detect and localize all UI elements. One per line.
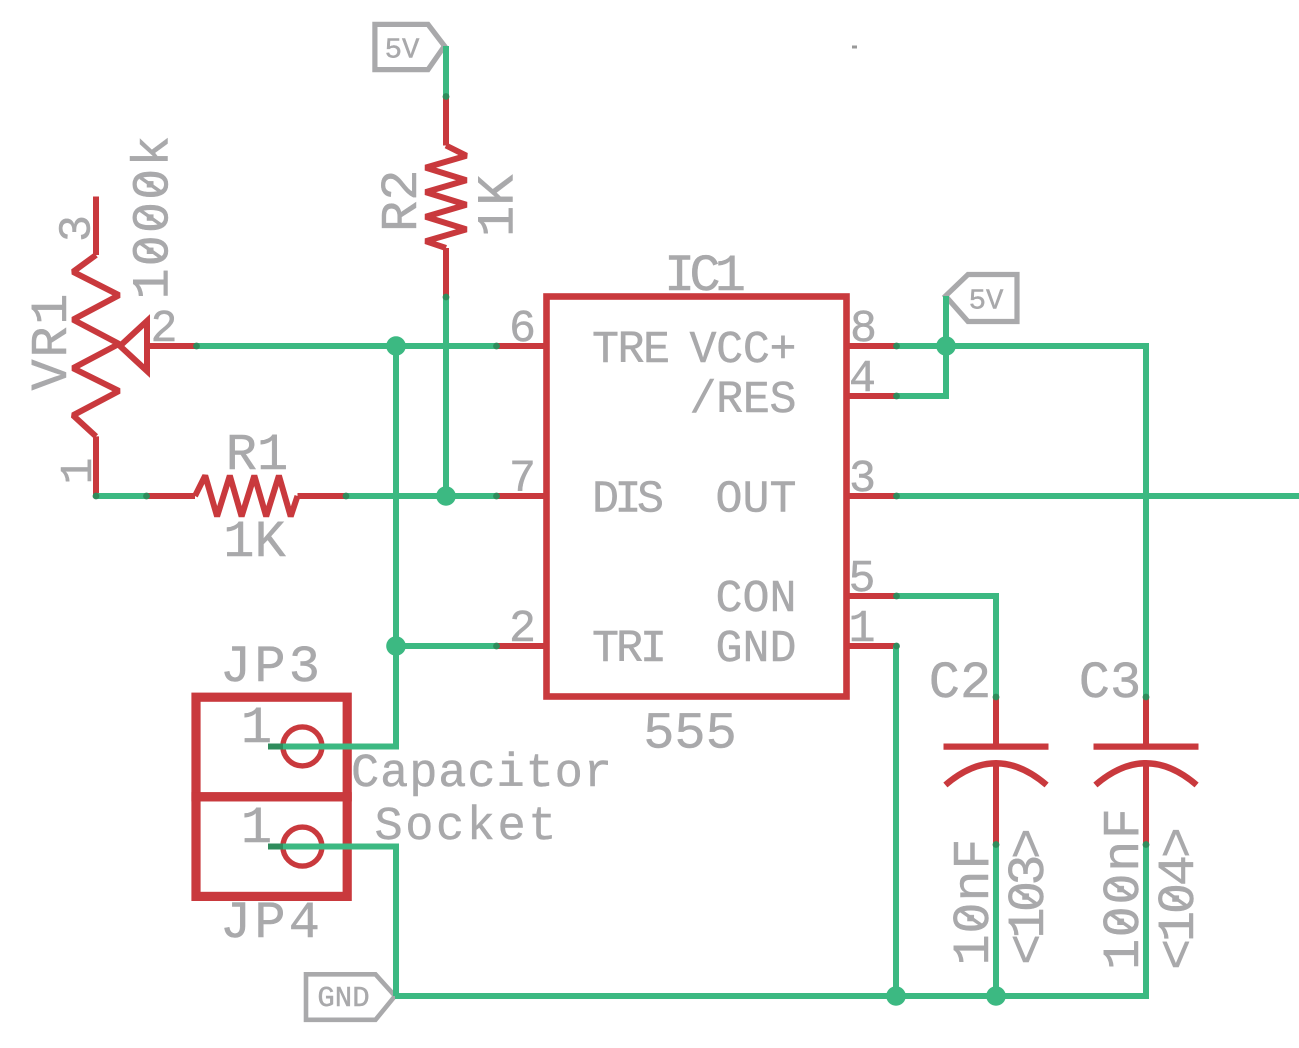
wire DIS net: R1 to pin 7: [346, 493, 497, 499]
connector JP4 pin circle: [283, 827, 322, 866]
ground flag GND: [306, 974, 395, 1020]
wire TRE net: vertical drop: [393, 346, 399, 646]
svg-text:DIS: DIS: [592, 475, 664, 526]
svg-text:7: 7: [509, 454, 536, 505]
svg-text:4: 4: [849, 354, 876, 405]
connector JP4 box: [196, 797, 347, 897]
svg-text:1: 1: [848, 604, 875, 655]
capacitor C2 bottom plate (arc): [945, 763, 1046, 785]
wire CON net: pin 5 to C2: [897, 596, 997, 697]
svg-text:C2: C2: [929, 654, 991, 713]
pin 5 stub: [847, 593, 897, 599]
svg-text:GND: GND: [317, 982, 369, 1015]
pin connection dot C3 top: [1143, 694, 1150, 701]
pin connection dot R1 left: [143, 493, 150, 500]
wire VCC net: pin 8 to C3 column: [897, 346, 1147, 697]
pin connection dot VR1 wiper: [193, 343, 200, 350]
pin 2 stub: [497, 643, 547, 649]
pin connection dot R2 bottom: [443, 294, 450, 301]
wire GND net: C2 bottom riser: [993, 845, 999, 997]
junction node VCC: [936, 336, 956, 356]
pin connection dot pin 6: [493, 343, 500, 350]
pin connection dot C2 bottom: [993, 841, 1000, 848]
svg-text:TRE: TRE: [592, 325, 670, 376]
svg-text:5: 5: [848, 554, 875, 605]
stray speck: [852, 46, 857, 49]
pin connection dot pin 7: [493, 493, 500, 500]
pin connection dot pin 8: [893, 343, 900, 350]
pin connection dot pin 4: [893, 393, 900, 400]
capacitor C3 bottom plate (arc): [1095, 763, 1196, 785]
svg-text:2: 2: [509, 604, 536, 655]
slashed-zero marks on value labels: [141, 243, 161, 257]
junction node DIS: [436, 486, 456, 506]
wire GND net: bottom rail: [395, 845, 1146, 997]
resistor R1 right lead: [298, 493, 347, 499]
svg-text:Capacitor: Capacitor: [351, 748, 612, 801]
svg-text:8: 8: [850, 304, 877, 355]
resistor R1 zigzag body: [195, 476, 298, 517]
svg-text:<103>: <103>: [1000, 828, 1059, 965]
pin 1 stub: [847, 643, 897, 649]
resistor R1 left lead: [147, 493, 196, 499]
svg-text:6: 6: [509, 304, 536, 355]
svg-text:<104>: <104>: [1150, 827, 1209, 970]
svg-text:5V: 5V: [969, 285, 1004, 318]
svg-text:555: 555: [643, 705, 737, 764]
wire DIS net: VR1 pin1 to R1: [96, 493, 147, 499]
potentiometer VR1 zigzag body: [73, 255, 119, 436]
capacitor C2 top lead: [993, 697, 999, 747]
op-amp/IC body IC1 (555 timer): [547, 297, 847, 697]
pin 6 stub: [497, 343, 547, 349]
wire TRE net: to pin 2: [396, 643, 497, 649]
resistor R2 top lead: [443, 97, 449, 146]
svg-text:OUT: OUT: [716, 475, 797, 526]
svg-text:3: 3: [849, 454, 876, 505]
resistor R2 bottom lead: [443, 248, 449, 297]
pin connection dot C3 bottom: [1143, 841, 1150, 848]
wire DIS net: R2 bottom vertical: [443, 297, 449, 496]
svg-text:2: 2: [150, 304, 177, 355]
pin connection dot R1 right: [343, 493, 350, 500]
pin connection dot pin 2: [493, 643, 500, 650]
junction node GND/C2: [986, 986, 1006, 1006]
pin connection dot pin 5: [893, 593, 900, 600]
wire TRE net: wiper to pin 6: [197, 343, 497, 349]
pin 4 stub: [847, 393, 897, 399]
svg-text:CON: CON: [716, 574, 797, 625]
svg-text:1: 1: [241, 799, 272, 858]
capacitor C2 top plate: [944, 743, 1049, 749]
pin connection stub JP3: [268, 744, 283, 750]
pin connection dot VR1 pin1: [93, 493, 100, 500]
capacitor C3 top plate: [1094, 743, 1199, 749]
potentiometer VR1 wiper stub (pin 2): [147, 343, 197, 349]
pin connection dot R2 top: [443, 93, 450, 100]
svg-text:1: 1: [241, 699, 272, 758]
pin 3 stub: [847, 493, 897, 499]
svg-text:1000k: 1000k: [125, 136, 184, 300]
potentiometer VR1 wiper arrow: [120, 321, 147, 371]
svg-text:C3: C3: [1079, 654, 1141, 713]
wire VCC net: 5V flag stub: [943, 296, 949, 346]
capacitor C3 bottom lead: [1143, 764, 1149, 845]
svg-text:3: 3: [53, 215, 104, 242]
capacitor C3 top lead: [1143, 697, 1149, 747]
svg-text:VCC+: VCC+: [690, 325, 797, 376]
svg-text:VR1: VR1: [23, 294, 82, 391]
wire GND net: JP4 pin to bottom: [268, 847, 396, 997]
capacitor C2 bottom lead: [993, 764, 999, 845]
wire VCC net: pin 4 link: [897, 346, 947, 396]
svg-text:R1: R1: [226, 426, 288, 485]
junction node TRE/TRI: [386, 636, 406, 656]
svg-text:JP4: JP4: [220, 894, 320, 953]
svg-text:IC1: IC1: [664, 247, 746, 306]
pin connection dot pin 3: [893, 493, 900, 500]
resistor R2 zigzag body: [426, 146, 467, 249]
junction node TRE/vertical: [386, 336, 406, 356]
svg-text:1: 1: [54, 457, 105, 484]
svg-text:/RES: /RES: [690, 375, 797, 426]
wire GND net: pin 1 down: [893, 646, 899, 996]
wire OUT net: [897, 493, 1299, 499]
supply flag 5V (top, right-pointing): [375, 24, 445, 69]
svg-text:1K: 1K: [470, 174, 529, 237]
connector JP3 pin circle: [283, 727, 322, 766]
pin connection dot C2 top: [993, 694, 1000, 701]
pin 7 stub: [497, 493, 547, 499]
svg-text:1K: 1K: [223, 513, 286, 572]
potentiometer VR1 bottom lead (pin 1): [93, 436, 99, 496]
connector JP3 box: [196, 697, 347, 797]
pin connection stub JP4: [268, 844, 283, 850]
wire TRE net: down to JP3 pin: [268, 646, 396, 747]
pin connection dot pin 1: [893, 643, 900, 650]
wire 5V flag to R2: [443, 46, 449, 97]
svg-text:GND: GND: [716, 624, 797, 675]
svg-text:R2: R2: [373, 170, 432, 232]
svg-text:JP3: JP3: [220, 638, 320, 697]
junction node GND/pin1: [886, 986, 906, 1006]
supply flag 5V (right, left-pointing): [946, 275, 1018, 322]
pin 8 stub: [847, 343, 897, 349]
svg-text:5V: 5V: [385, 34, 420, 67]
svg-text:TRI: TRI: [592, 624, 667, 675]
potentiometer VR1 top lead (pin 3): [93, 197, 99, 256]
